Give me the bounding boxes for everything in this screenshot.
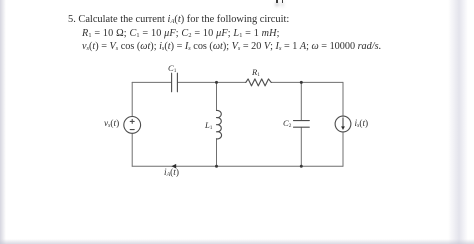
capacitor C2 plates [294, 121, 310, 128]
inductor L1 coil [217, 110, 222, 138]
parameter line 3 [82, 41, 381, 52]
wire: left vertical below source [131, 133, 133, 166]
page edge shading [0, 0, 6, 244]
parameter line 2 [82, 28, 280, 39]
label vs(t) [104, 119, 119, 129]
wire: top, node B to right corner [301, 81, 343, 83]
wire: C2 branch upper lead [300, 82, 302, 120]
junction node B bottom [300, 165, 303, 168]
wire: C2 branch lower lead [300, 127, 302, 166]
voltage source vs circle [124, 117, 141, 134]
is arrowhead (down) [341, 126, 345, 130]
vs minus sign [130, 129, 134, 131]
problem statement line 1 [68, 14, 289, 25]
label L1 [205, 120, 212, 130]
capacitor C1 plates [172, 73, 178, 92]
label C2 [283, 118, 291, 128]
resistor R1 zigzag [246, 79, 271, 86]
wire: top, R1 to node B [271, 81, 301, 83]
junction node B top [300, 81, 303, 84]
junction node A top [215, 81, 218, 84]
label iA(t) [164, 168, 179, 178]
is arrow shaft [342, 118, 344, 127]
label C1 [168, 63, 176, 73]
label R1 [252, 67, 260, 77]
wire: top, C1 right plate to node A [178, 81, 217, 83]
label is(t) [355, 119, 369, 129]
junction node A bottom [215, 165, 218, 168]
wire: right vertical above source [342, 82, 344, 116]
wire: L1 branch upper lead [216, 82, 218, 110]
wire: top, node A to R1 [217, 81, 246, 83]
vs plus sign [130, 119, 134, 123]
wire: L1 branch lower lead [216, 139, 218, 166]
iA arrowhead on bottom wire (left) [171, 164, 176, 169]
wire: bottom [132, 165, 343, 167]
cropped text remnants top right [276, 0, 278, 3]
current source is circle [335, 116, 351, 132]
wire: right vertical below source [342, 132, 344, 166]
wire: top, vs to C1 left plate [132, 81, 171, 83]
wire: left vertical above source [131, 82, 133, 116]
